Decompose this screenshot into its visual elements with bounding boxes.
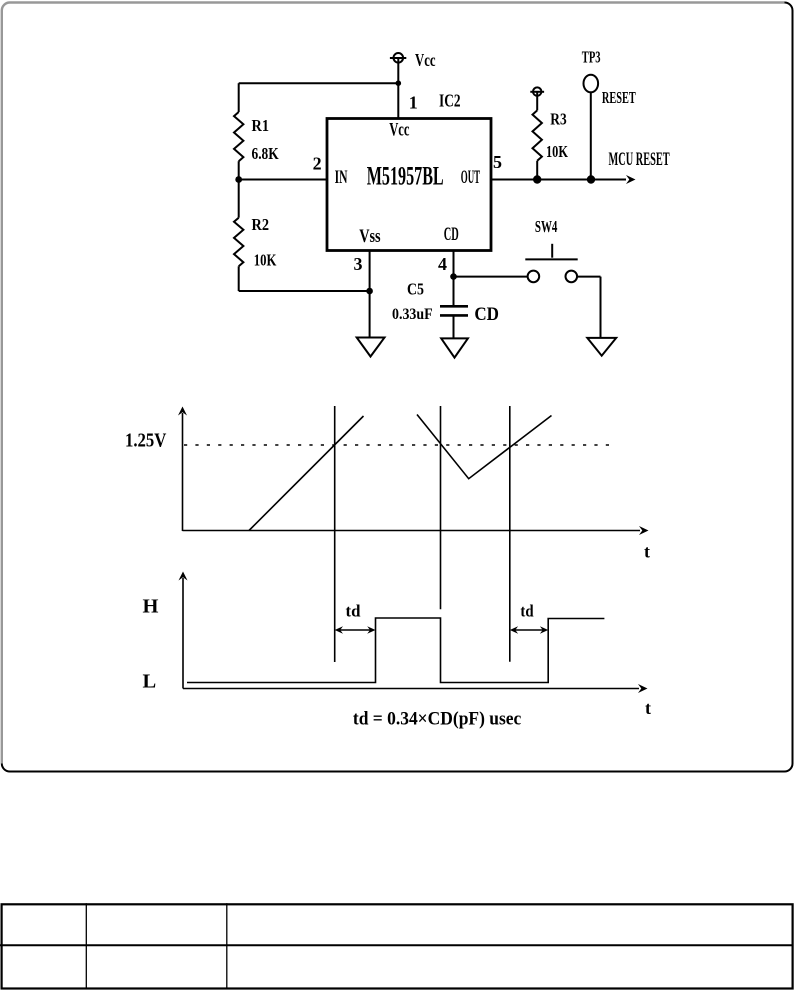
svg-text:OUT: OUT [461,167,480,188]
svg-text:Vcc: Vcc [415,50,436,70]
svg-text:R2: R2 [252,215,270,234]
svg-text:C5: C5 [407,280,424,299]
svg-text:0.33uF: 0.33uF [392,306,433,323]
svg-text:1.25V: 1.25V [125,430,167,452]
svg-text:CD: CD [474,304,499,325]
svg-text:td = 0.34×CD(pF) usec: td = 0.34×CD(pF) usec [353,709,521,730]
svg-text:10K: 10K [546,142,568,161]
svg-text:t: t [645,698,651,718]
svg-text:1: 1 [409,93,418,113]
svg-text:4: 4 [438,254,447,274]
svg-text:L: L [143,670,157,692]
svg-text:IN: IN [335,167,348,188]
svg-text:5: 5 [493,152,502,172]
svg-text:R1: R1 [252,116,270,135]
svg-text:2: 2 [313,153,322,173]
svg-text:10K: 10K [254,250,277,269]
svg-text:Vcc: Vcc [389,119,409,140]
svg-text:td: td [520,601,534,620]
svg-text:RESET: RESET [602,88,636,107]
svg-text:3: 3 [354,254,363,274]
svg-text:SW4: SW4 [535,217,558,236]
svg-text:H: H [143,595,159,617]
svg-text:6.8K: 6.8K [252,144,279,163]
svg-text:CD: CD [444,224,459,245]
svg-text:t: t [644,542,650,562]
svg-text:R3: R3 [550,109,566,128]
svg-text:MCU RESET: MCU RESET [609,149,670,170]
svg-text:td: td [346,602,362,621]
svg-text:IC2: IC2 [439,91,461,111]
svg-text:M51957BL: M51957BL [367,161,444,190]
svg-text:TP3: TP3 [582,48,601,67]
svg-text:Vss: Vss [359,226,380,247]
